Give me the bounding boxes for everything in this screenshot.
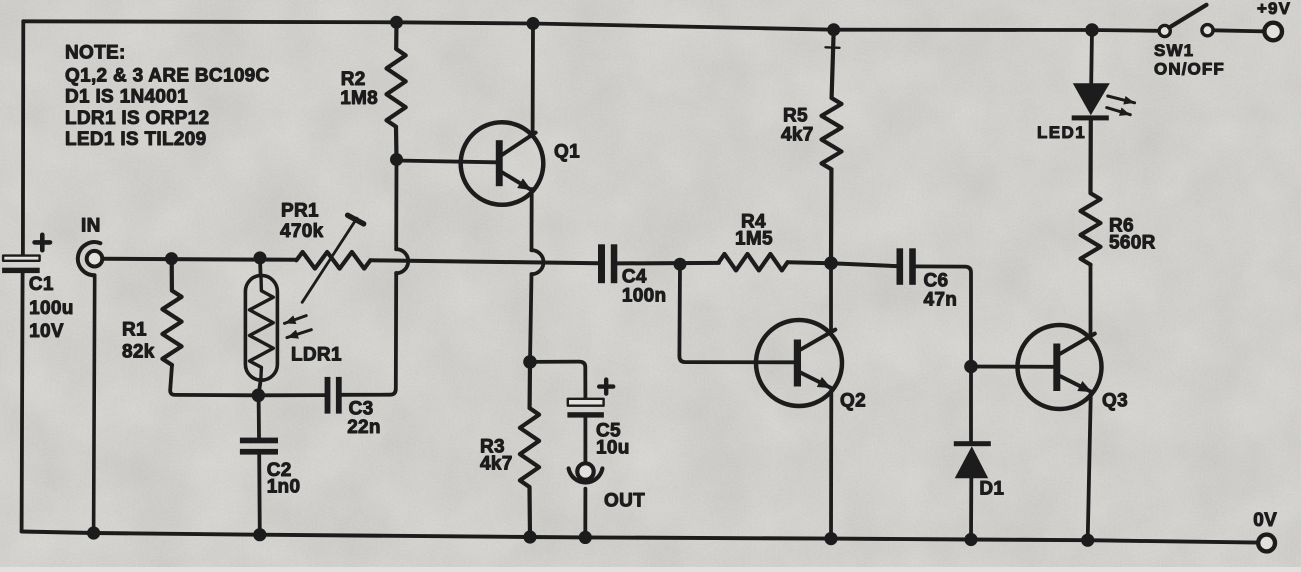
wire D1 top lead <box>969 367 973 442</box>
transistor Q1 base bar <box>496 140 503 186</box>
svg-text:1M5: 1M5 <box>735 229 773 250</box>
svg-text:D1 IS 1N4001: D1 IS 1N4001 <box>65 87 188 108</box>
wire signal PR1 to C4 <box>370 260 598 263</box>
capacitor C2 top plate <box>240 438 278 444</box>
svg-text:LDR1: LDR1 <box>291 345 342 366</box>
wire Q2 base branch <box>679 264 794 362</box>
svg-text:100n: 100n <box>622 286 667 307</box>
wire LDR1 bottom lead <box>259 379 261 395</box>
svg-text:100u: 100u <box>29 298 74 319</box>
svg-text:Q1,2 & 3 ARE BC109C: Q1,2 & 3 ARE BC109C <box>65 66 270 87</box>
photoresistor LDR1 body <box>245 275 277 380</box>
node Q3 emitter rail <box>1081 534 1094 547</box>
LED1 cathode bar <box>1072 115 1109 120</box>
resistor R4 <box>719 254 788 270</box>
PR1 adjuster slot bar <box>348 215 364 224</box>
wire Q3 collector riser <box>1089 265 1093 338</box>
wire left supply edge (C1 to bottom rail) <box>22 273 23 532</box>
transistor Q3 emitter stroke <box>1061 376 1092 392</box>
node LED branch rail junction <box>1085 23 1099 37</box>
LDR1 light arrow 2 <box>287 330 311 338</box>
svg-text:C4: C4 <box>622 267 647 288</box>
wire Q1 emitter down to hop <box>530 189 534 250</box>
svg-text:LDR1 IS ORP12: LDR1 IS ORP12 <box>65 108 209 129</box>
svg-text:NOTE:: NOTE: <box>65 43 126 64</box>
node R2 top junction <box>390 16 403 29</box>
wire Q3 emitter to 0V rail <box>1088 392 1091 540</box>
wire IN ground drop <box>94 275 95 533</box>
transistor Q3 circle <box>1018 325 1102 409</box>
wire LED1 top lead <box>1089 30 1094 83</box>
svg-text:560R: 560R <box>1109 233 1156 254</box>
wire C5 to OUT <box>584 418 588 464</box>
svg-text:470k: 470k <box>280 221 324 242</box>
wire C4 to R4 <box>617 261 719 266</box>
wire hop over signal line at x396 <box>396 249 408 273</box>
svg-text:Q3: Q3 <box>1102 391 1128 412</box>
svg-text:PR1: PR1 <box>281 201 319 222</box>
LDR1 light arrow 1 <box>285 316 307 324</box>
node D1 rail <box>964 533 977 546</box>
LED1 light arrow 2 <box>1107 108 1131 115</box>
wire hop to R3 junction <box>530 274 532 362</box>
LED1 light arrow 1 <box>1108 96 1135 103</box>
wire hop over signal line at x531 <box>532 250 544 274</box>
svg-text:ON/OFF: ON/OFF <box>1154 60 1225 79</box>
svg-text:LED1: LED1 <box>1037 123 1086 142</box>
transistor Q1 collector stroke <box>502 133 536 156</box>
svg-text:47n: 47n <box>924 290 958 311</box>
resistor R2 <box>387 22 406 159</box>
node IN ground rail <box>87 526 100 539</box>
wire junction to C6 <box>831 263 897 266</box>
svg-text:+9V: +9V <box>1257 0 1291 18</box>
transistor Q2 circle <box>756 320 842 406</box>
wire R1 bottom elbow <box>170 365 258 395</box>
svg-text:R1: R1 <box>122 320 147 341</box>
terminal IN (circle) <box>87 251 103 267</box>
capacitor C4 left plate <box>598 244 605 283</box>
svg-text:IN: IN <box>81 216 101 237</box>
wire input signal (IN to PR1) <box>102 259 296 260</box>
wire C2 bottom lead <box>257 455 261 535</box>
wire OUT ground drop <box>583 489 587 538</box>
wire C2 top lead <box>257 395 261 437</box>
terminal OUT (shield arc) <box>569 469 603 483</box>
terminal 0V <box>1258 535 1275 552</box>
transistor Q2 collector stroke <box>800 330 836 351</box>
capacitor C6 left plate <box>897 248 904 284</box>
wire left supply edge (top rail to C1) <box>21 21 25 255</box>
svg-text:0V: 0V <box>1253 510 1277 531</box>
terminal IN (shield arc) <box>78 242 101 275</box>
diode D1 triangle <box>955 446 989 478</box>
svg-text:10V: 10V <box>29 321 64 342</box>
wire Q2 emitter to 0V rail <box>829 388 833 538</box>
svg-text:C6: C6 <box>924 271 949 292</box>
wire C3 right to riser <box>342 273 397 395</box>
svg-text:4k7: 4k7 <box>781 125 814 146</box>
node Q1 collector rail junction <box>527 17 540 30</box>
wire Q3 base <box>971 365 1053 369</box>
node emitter R3 C5 junction <box>523 355 537 369</box>
svg-text:LED1 IS TIL209: LED1 IS TIL209 <box>65 129 206 150</box>
wire D1 bottom lead <box>969 478 973 539</box>
capacitor C4 right plate <box>611 244 618 283</box>
terminal +9V <box>1264 23 1282 41</box>
svg-text:R5: R5 <box>783 106 808 127</box>
switch SW1 throw circle <box>1202 25 1213 36</box>
svg-text:1n0: 1n0 <box>267 476 301 497</box>
transistor Q2 emitter stroke <box>800 372 831 388</box>
wire LDR junction to C3 <box>258 393 324 397</box>
svg-text:82k: 82k <box>122 342 155 363</box>
wire R4 to junction <box>788 262 831 263</box>
resistor R5 <box>822 30 842 264</box>
capacitor C6 right plate <box>909 248 916 284</box>
capacitor C1 plus sign <box>35 235 50 250</box>
svg-text:22n: 22n <box>347 417 381 438</box>
preset resistor PR1 <box>296 252 370 269</box>
svg-text:R2: R2 <box>341 69 366 90</box>
node Q3 base D1 junction <box>964 360 978 374</box>
node R1 top junction <box>165 252 178 265</box>
transistor Q1 circle <box>461 122 544 205</box>
capacitor C1 bottom plate (solid) <box>2 268 40 273</box>
capacitor C1 top plate (hollow) <box>3 256 40 261</box>
wire Q2 collector riser <box>829 263 833 333</box>
node C2 rail <box>253 528 266 541</box>
transistor Q1 emitter stroke <box>502 172 532 190</box>
switch SW1 pole circle <box>1159 25 1170 36</box>
node R4 R5 C6 junction <box>824 256 838 270</box>
capacitor C5 top plate (hollow) <box>568 399 604 406</box>
svg-text:Q2: Q2 <box>840 391 866 412</box>
switch SW1 lever <box>1169 5 1206 28</box>
node R3 rail <box>523 530 536 543</box>
PR1 adjuster arrow shaft <box>302 218 357 302</box>
photoresistor LDR1 zigzag <box>250 277 274 380</box>
R5 crossing tick <box>826 46 840 49</box>
svg-text:10u: 10u <box>596 438 630 459</box>
svg-text:SW1: SW1 <box>1154 41 1194 60</box>
capacitor C3 left plate <box>325 377 331 414</box>
LED1 triangle <box>1073 83 1110 115</box>
wire riser R2 junction down to hop <box>394 160 398 250</box>
wire Q1 base <box>397 161 497 163</box>
resistor R6 <box>1081 120 1101 264</box>
svg-text:4k7: 4k7 <box>480 454 513 475</box>
wire Q1 collector to top rail <box>531 24 535 135</box>
resistor R1 <box>162 259 181 365</box>
node C4 output junction <box>674 258 687 271</box>
wire top +9V rail <box>23 21 1159 31</box>
resistor R3 <box>520 362 539 537</box>
terminal OUT (circle) <box>577 463 593 479</box>
wire C6 to Q3 base corner <box>916 266 971 366</box>
node Q1 base junction <box>390 153 403 166</box>
wire C5 branch <box>530 362 585 399</box>
wire bottom 0V rail <box>22 532 1259 543</box>
svg-text:1M8: 1M8 <box>340 88 378 109</box>
svg-text:Q1: Q1 <box>554 142 580 163</box>
capacitor C5 plus sign <box>599 380 613 394</box>
node LDR1 bottom junction <box>251 389 265 403</box>
wire SW1 to +9V terminal <box>1213 30 1264 31</box>
transistor Q3 base bar <box>1053 344 1060 392</box>
transistor Q2 base bar <box>794 340 801 387</box>
svg-text:OUT: OUT <box>604 491 645 512</box>
svg-text:D1: D1 <box>979 479 1004 500</box>
node OUT ground rail <box>579 531 592 544</box>
wire LDR1 top lead <box>258 258 262 276</box>
capacitor C5 bottom plate (solid) <box>567 412 604 417</box>
node R5 top rail junction <box>827 23 840 36</box>
capacitor C3 right plate <box>336 377 342 414</box>
capacitor C2 bottom plate <box>240 449 278 455</box>
diode D1 cathode bar <box>954 441 991 446</box>
node Q2 emitter rail <box>824 532 837 545</box>
node LDR1 top junction <box>254 251 267 264</box>
svg-text:C1: C1 <box>29 274 54 295</box>
transistor Q3 collector stroke <box>1060 334 1095 354</box>
